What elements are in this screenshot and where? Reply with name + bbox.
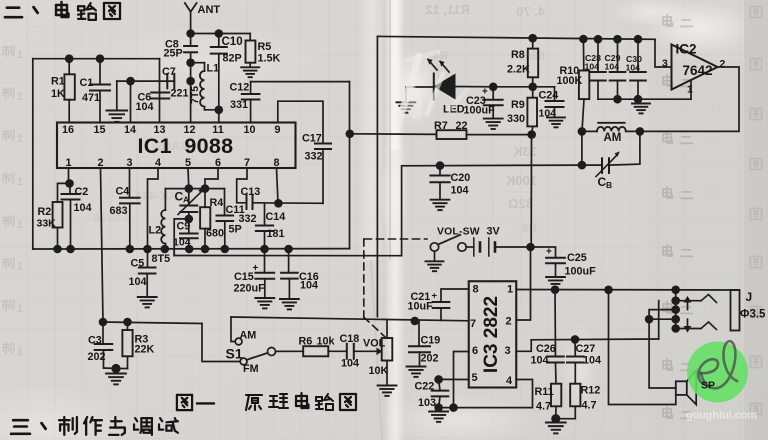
svg-text:103: 103 [418, 397, 436, 409]
node pin4/pin6 [449, 403, 458, 412]
wire R8 bottom node [493, 86, 554, 88]
wire oscillator top rail [165, 188, 224, 190]
svg-text:C10: C10 [222, 36, 243, 48]
svg-text:104: 104 [300, 280, 318, 292]
node C19 top [411, 317, 420, 326]
svg-text:100K: 100K [505, 173, 537, 188]
wire speaker feed 1 [604, 286, 676, 405]
wire left edge of LED block [376, 36, 378, 316]
wire pin2 to volume node [101, 168, 104, 322]
svg-text:1: 1 [17, 133, 23, 145]
svg-text:100uF: 100uF [464, 105, 496, 117]
wire IC3 pin4 loop [439, 380, 533, 408]
svg-text:R1: R1 [51, 76, 65, 88]
wire top-left rail [33, 58, 160, 60]
node bus C2 [66, 245, 75, 254]
capacitor C28 [585, 39, 606, 99]
wire IC3 pin1 output rail [516, 289, 739, 292]
svg-text:FM: FM [243, 363, 259, 375]
node C22 top [434, 375, 443, 384]
capacitor C24 [539, 87, 564, 120]
wire C8 line to pin12 [190, 63, 192, 123]
node jack contact y328 [671, 324, 680, 333]
node C1 top [96, 54, 105, 63]
svg-text:J: J [746, 290, 753, 304]
capacitor C7 [162, 66, 189, 100]
node bus R2 [53, 245, 62, 254]
svg-text:L1: L1 [207, 63, 220, 75]
node bus L2 [161, 245, 170, 254]
jack plug arrow up [684, 296, 692, 310]
svg-text:3V: 3V [487, 226, 501, 238]
wire right section top rail [378, 36, 655, 39]
svg-text:C22: C22 [415, 381, 435, 393]
wire main ground bus [33, 248, 350, 250]
node C29 bottom [613, 95, 622, 104]
wire C9-left link [174, 219, 189, 256]
svg-text:R11: R11 [535, 386, 554, 398]
svg-text:C15: C15 [234, 271, 254, 283]
ground under R11/R12 [546, 423, 566, 434]
svg-text:SP: SP [701, 380, 715, 392]
battery 3V [466, 226, 530, 257]
heading: 二、电路图 (2. Circuit Diagram) [5, 2, 120, 20]
svg-text:7T5: 7T5 [189, 86, 201, 104]
wire +3V to IC3 pin2 [516, 247, 530, 320]
watermark goughlui.com [686, 410, 757, 422]
svg-text:C17: C17 [302, 133, 322, 145]
capacitor C13 [239, 186, 261, 225]
svg-text:+: + [546, 247, 552, 258]
capacitor C18 [340, 333, 360, 370]
svg-text:3: 3 [662, 58, 668, 70]
svg-text:C14: C14 [266, 211, 286, 223]
label 8T5 (L2 winding) [152, 253, 171, 265]
wire pin7 to C13 [237, 168, 247, 203]
wire jack tip contact (upper) [676, 295, 717, 303]
ground LED cathode [396, 87, 415, 113]
node L1 top junction [186, 58, 195, 67]
svg-text:C13: C13 [241, 186, 261, 198]
node bus C14/C15 [260, 245, 269, 254]
svg-text:22K: 22K [135, 344, 155, 356]
svg-text:7: 7 [470, 318, 476, 330]
svg-text:4.7: 4.7 [582, 400, 597, 412]
resistor R10 [557, 39, 590, 131]
svg-text:3: 3 [504, 345, 510, 357]
svg-text:C12: C12 [230, 82, 250, 94]
svg-text:C5: C5 [131, 258, 145, 270]
svg-text:33K: 33K [513, 144, 537, 159]
resistor R7 [434, 120, 532, 139]
svg-text:C26: C26 [536, 343, 556, 355]
node bus C4 [126, 245, 135, 254]
svg-text:R4: R4 [210, 197, 224, 209]
node pin1 [65, 179, 74, 188]
inductor AM (ferrite rod antenna coil) [582, 123, 640, 144]
capacitor C29 [605, 39, 626, 99]
ground under C24 [547, 117, 565, 127]
wire pin1 [68, 168, 70, 183]
svg-text:C27: C27 [576, 343, 596, 355]
capacitor C1 [80, 59, 111, 123]
variable capacitor CB [582, 131, 640, 190]
svg-text:6: 6 [472, 345, 478, 357]
svg-text:C9: C9 [177, 221, 191, 233]
svg-text:332: 332 [305, 151, 323, 163]
IC3 pin 1 [507, 284, 513, 296]
node pin5/CA [185, 184, 194, 193]
svg-text:33K: 33K [37, 218, 57, 230]
node battery/+3V [526, 243, 535, 252]
wire rail corner to IC2 pin3 [655, 39, 672, 67]
node C9 top [185, 215, 194, 224]
svg-text:100K: 100K [557, 75, 583, 87]
node R10 top [579, 35, 588, 44]
wire AM feed [231, 317, 235, 342]
wire ground branch / pin14 [117, 81, 175, 122]
svg-text:104: 104 [451, 185, 469, 197]
node jack jumper [645, 315, 654, 324]
svg-text:32Ω: 32Ω [508, 196, 533, 211]
node bus pin4/C5 [143, 245, 152, 254]
wire speaker feed 2 [649, 319, 676, 388]
svg-text:R2: R2 [38, 206, 52, 218]
svg-text:683: 683 [110, 205, 128, 217]
node C22 bottom [434, 403, 443, 412]
node bus C9 [185, 245, 194, 254]
wire C13 node line [253, 202, 324, 205]
svg-text:2: 2 [720, 58, 726, 70]
ground under VOL [378, 386, 397, 396]
resistor R1 [51, 59, 75, 123]
svg-text:104: 104 [605, 62, 620, 72]
svg-text:5P: 5P [229, 224, 242, 236]
wire IC3 pin8 to C21 [441, 289, 469, 302]
svg-text:1: 1 [17, 176, 23, 188]
node L1 bottom [215, 106, 224, 115]
node AM left [578, 127, 587, 136]
capacitor C30 [626, 39, 646, 99]
capacitor C21 (electrolytic) [408, 291, 450, 321]
resistor R12 [556, 363, 601, 419]
IC3 pin 2 [505, 316, 511, 328]
svg-text:IC3 2822: IC3 2822 [481, 296, 502, 373]
node C29 top [613, 35, 622, 44]
capacitor C25 (electrolytic) [531, 247, 597, 278]
svg-text:332: 332 [239, 213, 257, 225]
svg-text:R11, 12: R11, 12 [425, 2, 470, 17]
wire bus sub-branch [174, 249, 401, 256]
heading: 三、制作与调试 (3. Construction and debugging) [11, 417, 178, 435]
resistor R9 [507, 87, 537, 135]
resistor R5 [246, 34, 281, 68]
wire IC3 pin6 drop [454, 352, 469, 408]
svg-text:104: 104 [531, 355, 549, 367]
IC1 bottom pin numbers 1-8 [65, 157, 279, 169]
node pin14 branch [126, 77, 135, 86]
node C20 top [436, 161, 445, 170]
node C26 top [551, 285, 560, 294]
node bus C11 [221, 245, 230, 254]
svg-text:R8: R8 [521, 221, 537, 235]
svg-text:AM: AM [240, 330, 257, 342]
wire R7 line [350, 133, 437, 136]
svg-text:VOL: VOL [363, 338, 386, 350]
svg-text:221: 221 [171, 88, 189, 100]
svg-text:8T5: 8T5 [152, 253, 171, 265]
svg-text:330: 330 [507, 113, 525, 125]
resistor R8 [507, 38, 538, 87]
svg-text:C25: C25 [567, 252, 587, 264]
node jack contact y309 [671, 305, 680, 314]
node pin8/C14 [274, 199, 283, 208]
op-amp/IC U3: IC3 2822 body [469, 281, 517, 387]
ground under C5 [138, 297, 157, 307]
svg-text:1: 1 [17, 261, 23, 273]
svg-text:C7: C7 [162, 66, 176, 78]
capacitor C10 [211, 34, 243, 123]
svg-text:4: 4 [506, 375, 513, 387]
node C7 junction [186, 77, 195, 86]
IC3 pin 8 [472, 284, 478, 296]
node C3/R3 ground [111, 364, 120, 373]
capacitor C23 (electrolytic) [464, 87, 503, 119]
svg-text:10K: 10K [369, 365, 389, 377]
capacitor C20 [430, 166, 470, 200]
LED [406, 59, 493, 116]
capacitor C14 [256, 203, 285, 249]
inductor L2 (8T5) [149, 189, 166, 249]
resistor R3 [116, 322, 155, 369]
ground under C15 [255, 298, 274, 308]
svg-text:+: + [482, 87, 488, 98]
svg-text:1K: 1K [51, 88, 65, 100]
node C23 top [489, 83, 498, 92]
svg-text:L2: L2 [149, 225, 162, 237]
capacitor C15 (electrolytic) [234, 249, 275, 298]
svg-text:C4: C4 [116, 186, 130, 198]
IC3 pin 4 [506, 375, 513, 387]
capacitor C8 [164, 34, 198, 63]
capacitor C16 [281, 249, 319, 299]
potentiometer VOL 10K [354, 320, 393, 385]
resistor R6 [299, 336, 336, 357]
speaker SP [676, 370, 696, 404]
svg-text:Φ3.5: Φ3.5 [740, 309, 766, 321]
ground IC2 pin1 [632, 104, 650, 114]
ground under R5 [241, 67, 259, 77]
svg-text:22: 22 [456, 120, 468, 132]
capacitor C3 [88, 322, 117, 369]
ground under C16 [280, 299, 299, 309]
svg-text:104: 104 [626, 63, 641, 73]
wire +3V vertical from R9 [530, 135, 532, 248]
wire C12 to right section [251, 81, 350, 83]
svg-text:13: 13 [153, 124, 165, 136]
wire pin9 to C17 [278, 101, 323, 143]
wire IC2 pin2 to AM tank [640, 67, 739, 131]
svg-text:14: 14 [124, 124, 136, 136]
svg-text:471: 471 [82, 92, 100, 104]
ground under C1 branch [106, 111, 127, 122]
wire left vertical to bottom bus [32, 59, 34, 249]
wire AM tank bottom [581, 131, 583, 165]
svg-text:1: 1 [17, 91, 23, 103]
node jack rail [671, 286, 680, 295]
svg-text:104: 104 [583, 355, 601, 367]
node R8/R9/C24 [528, 83, 537, 92]
svg-text:VOL-SW: VOL-SW [437, 227, 480, 238]
node R7 line left [346, 130, 355, 139]
resistor R11 [535, 363, 562, 419]
wire audio line to IC3 pin7 [231, 317, 469, 321]
svg-text:220uF: 220uF [234, 283, 266, 295]
svg-text:C3: C3 [88, 335, 102, 347]
node R11/R12 ground [551, 414, 560, 423]
node R3 [123, 318, 132, 327]
svg-text:R8: R8 [511, 49, 525, 61]
svg-text:R12: R12 [581, 385, 601, 397]
wire S1 pole to R6 [276, 350, 304, 352]
svg-text:82P: 82P [223, 53, 242, 65]
capacitor C19 [409, 320, 440, 366]
resistor R4 [200, 189, 224, 249]
svg-text:100uF: 100uF [565, 266, 597, 278]
node R9 bottom [527, 130, 536, 139]
svg-text:R7: R7 [434, 120, 448, 132]
capacitor C2 [62, 183, 92, 249]
svg-text:IC1 9088: IC1 9088 [138, 134, 234, 158]
capacitor C9 [173, 219, 198, 249]
svg-text:R6: R6 [299, 336, 313, 348]
svg-text:1: 1 [507, 284, 513, 296]
IC3 pin 3 [504, 345, 510, 357]
label SP [701, 380, 715, 392]
wire IC3 pin3 audio rail [516, 301, 658, 352]
wire jack tip contact (lower) [676, 322, 717, 330]
node C30 top [634, 35, 643, 44]
svg-text:104: 104 [74, 202, 92, 214]
op-amp U2: IC2 7642 [662, 42, 726, 96]
node jack contact y300 [671, 296, 680, 305]
IC1 top pin numbers 16-9 [62, 124, 281, 136]
svg-text:goughlui.com: goughlui.com [686, 410, 757, 422]
svg-text:104: 104 [341, 358, 359, 370]
ground under R3/C3 [106, 374, 126, 385]
node C28 top [594, 35, 603, 44]
dashed gang link VOL-SW to VOL [364, 239, 427, 338]
svg-text:202: 202 [88, 351, 106, 363]
svg-text:104: 104 [136, 101, 154, 113]
IC3 pin 6 [472, 345, 478, 357]
ground under VOL-SW [426, 261, 444, 271]
op-amp/IC U1: IC1 9088 body [57, 123, 296, 169]
svg-text:680: 680 [206, 228, 224, 240]
wire IC2 pin1 stub [690, 81, 692, 100]
node C27 top [571, 335, 580, 344]
ground under C19 [407, 367, 426, 377]
svg-text:25P: 25P [164, 48, 183, 60]
svg-text:10k: 10k [317, 336, 336, 348]
wire pin8 [277, 168, 279, 203]
capacitor C5 [129, 249, 156, 297]
svg-text:16: 16 [62, 124, 74, 136]
wire jack jumper [649, 310, 676, 320]
svg-text:A: A [183, 195, 189, 205]
svg-text:104: 104 [129, 276, 147, 288]
node R1 top [65, 54, 74, 63]
wire C6/pin13 vertical [159, 59, 161, 123]
capacitor C11 [217, 189, 245, 249]
node AM right [636, 127, 645, 136]
capacitor C12 [230, 82, 260, 123]
resistor R2 [37, 183, 70, 249]
capacitor C27 [567, 339, 601, 366]
svg-text:C20: C20 [451, 172, 471, 184]
IC3 pin 7 [470, 318, 476, 330]
svg-text:15: 15 [93, 124, 105, 136]
switch VOL-SW [430, 227, 479, 262]
wire IC3 pin5 [439, 378, 469, 380]
svg-text:C18: C18 [340, 333, 360, 345]
inductor L1 (7T5) [189, 63, 219, 110]
caption: 图一 原理电路图 (Fig.1 schematic) [177, 393, 356, 410]
ground under C20 [431, 200, 450, 210]
node C30 bottom [634, 95, 643, 104]
svg-text:1: 1 [17, 219, 23, 231]
capacitor C4 [110, 168, 140, 249]
jack J body [731, 290, 767, 331]
svg-text:C19: C19 [421, 335, 441, 347]
capacitor C22 [415, 379, 449, 409]
wire pin4 to bus [148, 168, 159, 249]
wire R6 to C18 [328, 350, 347, 352]
svg-text:1: 1 [17, 49, 23, 61]
jack plug arrow down [684, 319, 692, 332]
wire pin5 [187, 168, 190, 189]
svg-text:104: 104 [585, 62, 600, 72]
node C8 top [186, 29, 195, 38]
node jack contact y319 [671, 315, 680, 324]
wire volume node [103, 322, 240, 362]
variable capacitor CA [175, 188, 204, 219]
node C3 [99, 318, 108, 327]
svg-text:C2: C2 [75, 186, 89, 198]
ground under C23 [484, 119, 503, 129]
wire right vertical x=349.5 [349, 82, 351, 249]
svg-text:202: 202 [421, 353, 439, 365]
svg-text:11: 11 [212, 124, 223, 136]
svg-text:12: 12 [183, 124, 195, 136]
wire C20 node line [402, 164, 582, 167]
svg-text:8: 8 [472, 284, 478, 296]
switch S1 [226, 330, 276, 376]
svg-text:C1: C1 [80, 77, 94, 89]
antenna ANT [185, 3, 221, 34]
capacitor C26 [531, 290, 564, 367]
svg-text:4. 70: 4. 70 [516, 4, 545, 19]
ground under C25 [546, 277, 565, 287]
svg-text:1.5K: 1.5K [258, 53, 281, 65]
wire C20 corner [401, 166, 403, 256]
capacitor C17 [302, 133, 331, 204]
svg-text:C24: C24 [539, 90, 559, 102]
svg-text:ANT: ANT [198, 4, 221, 16]
node bus R4 [201, 245, 210, 254]
node CB left [578, 161, 587, 170]
wire jack contact column [675, 290, 677, 329]
